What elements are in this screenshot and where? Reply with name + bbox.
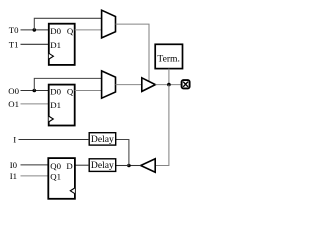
delay DL2 xyxy=(89,159,116,172)
wire T0 to D0 xyxy=(21,29,49,31)
wire I0 to Q0 xyxy=(21,164,49,166)
svg-text:I: I xyxy=(13,135,16,145)
svg-text:Q1: Q1 xyxy=(50,172,61,182)
svg-text:Q0: Q0 xyxy=(50,161,61,171)
svg-text:T1: T1 xyxy=(9,40,19,50)
wire B1 out to pad xyxy=(155,84,181,86)
svg-text:D0: D0 xyxy=(50,86,61,96)
node pad junction xyxy=(167,83,171,87)
wire O1 to D1 xyxy=(21,103,49,105)
delay DL1 xyxy=(89,133,116,145)
tristate buffer B1 xyxy=(142,78,156,92)
svg-text:I1: I1 xyxy=(10,171,17,181)
flip-flop FF2 xyxy=(49,85,75,126)
svg-text:O1: O1 xyxy=(8,99,19,109)
node delay junction xyxy=(127,164,131,168)
svg-text:D0: D0 xyxy=(50,26,61,36)
node T0 junction xyxy=(33,28,37,32)
wire pad junction down to buffer B2 xyxy=(155,85,169,166)
wire FF1 Q to mux M1 xyxy=(75,29,102,31)
svg-text:D: D xyxy=(66,161,72,171)
wire delay DL2 to FF3 D xyxy=(75,164,89,166)
node O0 junction xyxy=(33,89,37,93)
wire junction up to delay DL1 xyxy=(116,140,129,166)
term box xyxy=(155,44,182,68)
wire term stem xyxy=(168,69,170,85)
wire T0 bypass to mux M1 xyxy=(34,18,101,30)
svg-text:Term.: Term. xyxy=(157,53,180,64)
wire mux M1 out to tristate B1 enable xyxy=(116,24,150,81)
svg-text:O0: O0 xyxy=(8,86,19,96)
wire junction to delay DL2 xyxy=(116,165,129,167)
wire O0 to D0 xyxy=(21,90,49,92)
wire mux M2 out to tristate B1 xyxy=(116,84,142,86)
wire O0 bypass to mux M2 xyxy=(34,78,101,90)
svg-text:Q: Q xyxy=(67,26,74,36)
svg-text:D1: D1 xyxy=(50,100,61,110)
svg-text:Delay: Delay xyxy=(91,134,114,145)
mux M2 xyxy=(102,71,116,98)
wire B2 out to delay junction xyxy=(129,165,141,167)
wire delay DL1 to I xyxy=(19,139,90,141)
wire I1 to Q1 xyxy=(21,175,49,177)
buffer B2 xyxy=(141,159,156,172)
pad symbol xyxy=(182,80,190,88)
svg-text:Delay: Delay xyxy=(91,160,114,171)
flip-flop FF3 xyxy=(48,158,75,199)
svg-text:T0: T0 xyxy=(9,25,19,35)
svg-text:Q: Q xyxy=(67,86,74,96)
svg-text:D1: D1 xyxy=(50,40,61,50)
mux M1 xyxy=(102,10,116,38)
svg-text:I0: I0 xyxy=(10,160,18,170)
wire FF2 Q to mux M2 xyxy=(75,90,102,92)
flip-flop FF1 xyxy=(49,24,75,65)
wire T1 to D1 xyxy=(21,43,49,45)
